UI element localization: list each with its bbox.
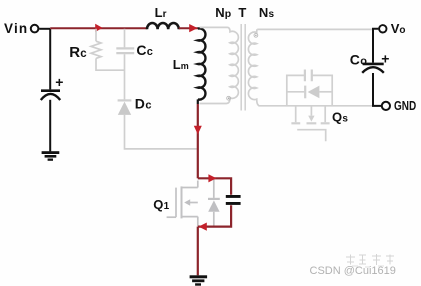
wire Lm tail to bottom junction (197, 99, 199, 104)
ground main (below Q1) (190, 275, 208, 285)
svg-text:1: 1 (164, 201, 170, 212)
svg-text:r: r (163, 9, 167, 20)
ground input (42, 151, 60, 161)
svg-text:T: T (238, 5, 246, 20)
svg-text:c: c (80, 48, 87, 60)
node polarity dot Ns (254, 33, 258, 37)
wire secondary top rail (Ns top to Vo corner, gray) (257, 28, 372, 30)
junction arrow current direction (right) before transformer (189, 24, 197, 32)
transformer T winding Np (200, 27, 239, 103)
junction body arrow Qs (down) (308, 116, 314, 122)
inductor Lm (magnetizing) (198, 28, 206, 99)
wire Vin terminal to input node (black) (39, 28, 50, 30)
svg-text:L: L (155, 5, 163, 20)
capacitor Co (plus plate) (363, 63, 384, 66)
svg-text:GND: GND (394, 98, 416, 113)
junction arrow current direction (left) bottom branch (199, 223, 207, 231)
wire top rail red: Lr to switch-node top junction (179, 27, 198, 29)
gate bar Q1 (175, 188, 177, 218)
capacitor Co (curved plate) (362, 67, 384, 73)
channel segments Qs (291, 122, 300, 124)
gate lead Q1 (167, 216, 176, 218)
svg-text:N: N (215, 5, 224, 20)
junction body arrow Q1 (left) (184, 199, 190, 205)
node polarity dot Np (227, 96, 231, 100)
svg-text:C: C (136, 42, 146, 58)
wire loop for Qs body diode and capacitance (287, 75, 332, 105)
gate bar and gate lead Qs (297, 130, 326, 142)
svg-text:o: o (399, 25, 405, 36)
transistor Q1 (main switch, gray) (167, 181, 198, 226)
svg-text:m: m (181, 61, 189, 71)
svg-text:+: + (55, 74, 63, 90)
svg-text:s: s (342, 114, 348, 125)
pin body stub Q1 (190, 202, 198, 204)
capacitor Q1 snubber plates (black) (226, 195, 241, 198)
wire red Q1 source to main ground (197, 227, 199, 276)
wire red top branch (Q1 drain junction to snubber cap) (198, 178, 231, 194)
channel bar Q1 (181, 186, 183, 218)
svg-text:o: o (360, 55, 367, 67)
pin source stub Qs (324, 106, 326, 122)
svg-text:Q: Q (332, 110, 342, 125)
capacitor input electrolytic (plus plate) (41, 89, 60, 92)
svg-text:s: s (269, 9, 275, 20)
capacitor Qs output capacitance (gray plates) (305, 70, 312, 82)
diode Q1 body diode (gray, pointing up) (213, 179, 215, 198)
node Vin terminal (31, 25, 39, 33)
wire secondary bottom rail (Ns bottom to GND, gray) (258, 105, 377, 107)
svg-text:Q: Q (153, 197, 163, 212)
diode Dc (clamp) (118, 99, 132, 101)
resistor Rc (clamp) (91, 29, 125, 70)
junction arrow current direction (right) on top rail (95, 24, 102, 32)
wire red bottom branch (snubber cap to Q1 source junction) (198, 205, 231, 226)
svg-text:Vin: Vin (4, 21, 28, 36)
node Vo terminal (379, 25, 386, 32)
pin body stub Qs (310, 106, 312, 116)
wire source connector Q1 (197, 217, 199, 226)
svg-text:C: C (350, 51, 360, 67)
wire input capacitor to input ground (49, 100, 51, 152)
transformer T winding Ns (248, 29, 258, 105)
wire Co bottom to GND terminal (black) (373, 73, 382, 106)
svg-text:p: p (225, 8, 231, 20)
pin drain stub Qs (295, 106, 297, 122)
svg-text:L: L (173, 57, 181, 72)
capacitor Cc (clamp) (116, 29, 134, 100)
inductor Lr (147, 23, 179, 29)
pin source stub Q1 (182, 216, 198, 218)
wire top rail red: input node to Lr (50, 27, 147, 29)
wire red switch-node vertical (Lm bottom to Q1 top junction) (197, 104, 199, 178)
wire input node down to input capacitor (black) (49, 29, 51, 90)
svg-text:R: R (69, 44, 80, 61)
wire Vo corner down to Co (black) (373, 29, 378, 63)
svg-text:N: N (259, 5, 268, 20)
svg-text:D: D (135, 96, 145, 112)
junction arrow current direction (down) on switch node (194, 126, 202, 135)
wire drain connector Q1 (197, 181, 199, 188)
capacitor input electrolytic (curved plate) (41, 94, 60, 100)
transformer core (241, 24, 245, 111)
node GND terminal (382, 102, 390, 110)
svg-text:c: c (147, 46, 153, 58)
diode Qs body diode (gray, pointing left) (304, 86, 306, 99)
pin drain stub Q1 (182, 187, 198, 189)
svg-text:c: c (145, 100, 151, 112)
svg-text:CSDN @Cui1619: CSDN @Cui1619 (310, 265, 396, 277)
transistor Qs (sync rectifier, gray, horizontal) (291, 106, 329, 141)
svg-text:+: + (381, 51, 389, 67)
junction arrow current direction (right) top branch (208, 174, 216, 182)
